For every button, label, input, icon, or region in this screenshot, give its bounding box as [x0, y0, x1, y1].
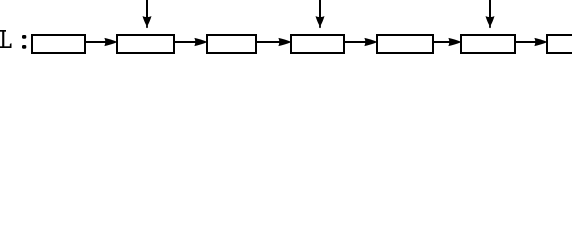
link arrow 3	[256, 38, 291, 46]
link arrow 2	[174, 38, 207, 46]
list node 6	[461, 35, 515, 53]
link arrow 4	[344, 38, 377, 46]
list node 7	[547, 35, 572, 53]
pointer arrow P3	[486, 0, 495, 28]
list node 4	[291, 35, 344, 53]
colon	[22, 35, 26, 49]
list node 1	[32, 35, 85, 53]
label L	[0, 30, 12, 48]
link arrow 6	[515, 38, 547, 46]
link arrow 5	[433, 38, 461, 46]
list node 3	[207, 35, 256, 53]
pointer arrow P2	[316, 0, 325, 28]
pointer arrow P1	[143, 0, 152, 28]
list node 5	[377, 35, 433, 53]
link arrow 1	[85, 38, 117, 46]
list node 2	[117, 35, 174, 53]
